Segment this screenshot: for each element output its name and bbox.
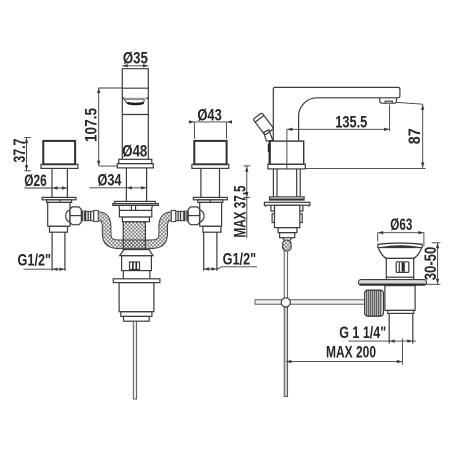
spout base upper bar (O48) — [119, 159, 152, 163]
drain tailpiece step — [388, 310, 414, 313]
svg-text:MAX 200: MAX 200 — [326, 344, 376, 362]
drain tailpiece pipe — [388, 313, 390, 343]
side body black tab — [268, 144, 271, 152]
deck line right — [305, 167, 425, 169]
center bottom nut — [121, 312, 152, 317]
drain plug dark dome — [379, 245, 422, 247]
right handle stem — [200, 168, 202, 197]
svg-text:Ø63: Ø63 — [390, 216, 412, 234]
dim 87 line — [422, 104, 424, 168]
dim G 1 1/4 line — [348, 340, 416, 342]
center body clamp detail — [130, 262, 140, 270]
side cone — [283, 238, 292, 241]
center washer flange — [113, 279, 160, 283]
svg-text:G 1 1/4": G 1 1/4" — [339, 324, 386, 342]
right escutcheon — [193, 197, 227, 199]
left escutcheon — [42, 197, 76, 199]
braided hose left — [98, 216, 136, 244]
side braid stub — [283, 240, 292, 251]
left valve tube G1/2 — [51, 232, 53, 271]
svg-text:G1/2": G1/2" — [18, 251, 52, 269]
dim 107.5 line — [98, 88, 100, 167]
left hose crimp — [94, 210, 98, 221]
side valve body — [275, 205, 300, 227]
spout front line under top — [122, 87, 148, 89]
right handle base — [192, 164, 229, 168]
drain flange top (O63) — [378, 243, 423, 244]
right elbow hex nut — [188, 207, 200, 225]
side base plate — [268, 164, 305, 169]
svg-text:30-50: 30-50 — [422, 247, 440, 281]
spout front line below outlet — [122, 114, 148, 116]
left valve body — [48, 202, 70, 226]
side dish flange — [264, 202, 310, 205]
dim O35 line — [122, 65, 148, 67]
right hose nipple — [176, 211, 184, 220]
center cone segment — [119, 205, 153, 210]
dim G1/2 right line — [203, 267, 257, 269]
drain locknut flange — [359, 280, 427, 286]
center mounting nut — [119, 210, 151, 217]
drain trumpet sides — [378, 248, 421, 259]
side body — [270, 141, 304, 164]
lever stem — [264, 130, 273, 141]
horizontal drain rod — [255, 300, 365, 304]
drain neck — [386, 277, 413, 280]
spout base lower bar — [117, 164, 153, 168]
svg-text:107.5: 107.5 — [82, 108, 100, 142]
DRAIN — [359, 243, 427, 344]
DIMENSIONS — [11, 50, 441, 365]
lever knob — [253, 113, 274, 135]
spout outlet dark mouth — [127, 103, 143, 104]
right elbow ball — [200, 210, 204, 222]
svg-text:MAX 37,5: MAX 37,5 — [231, 186, 249, 238]
left hose nipple — [86, 211, 94, 220]
dim 87 leader — [397, 102, 423, 104]
side washer bar — [270, 197, 305, 200]
drain body clamp detail — [396, 262, 409, 273]
left handle body — [43, 141, 75, 164]
center escutcheon — [115, 201, 156, 203]
side nut 2 — [280, 233, 295, 238]
dim O34 line — [89, 187, 147, 189]
dim MAX 37,5 line — [246, 166, 248, 238]
pop-up rod front — [133, 321, 136, 399]
left elbow grooves — [82, 210, 84, 221]
spout profile side — [273, 87, 400, 141]
drain body — [386, 258, 413, 277]
side body tabs lower — [272, 214, 302, 223]
dim O26 line — [24, 187, 68, 189]
aerator at spout tip — [380, 98, 397, 103]
svg-text:87: 87 — [406, 128, 424, 144]
svg-text:G1/2": G1/2" — [223, 251, 257, 269]
dim 135.5 line — [287, 128, 390, 130]
right valve nut — [203, 226, 221, 232]
dim O43 line — [190, 121, 231, 123]
O34 stem under spout — [125, 168, 127, 202]
spout front light seam — [123, 97, 148, 99]
dim 30-50 line — [437, 243, 439, 284]
dim 37.7 line — [26, 138, 28, 171]
svg-text:Ø34: Ø34 — [98, 171, 122, 189]
rod junction ball — [281, 298, 290, 307]
right handle body — [194, 141, 226, 164]
left handle stem — [51, 168, 53, 197]
right hose crimp — [171, 210, 175, 221]
dim G1/2 left line — [24, 268, 66, 270]
left elbow hex nut — [70, 207, 82, 225]
aerator notch — [385, 101, 392, 103]
dim O63 line — [378, 232, 424, 234]
center body cylinder — [122, 256, 152, 271]
right elbow grooves — [186, 210, 188, 221]
drain lower body — [385, 286, 415, 311]
spout outlet trapezoid — [124, 99, 144, 103]
dim MAX 200 line — [286, 361, 403, 363]
center inset section — [123, 271, 150, 279]
center cone flare — [120, 250, 153, 256]
right valve body — [200, 202, 222, 226]
drain flange underside — [378, 244, 423, 247]
side nut 1 — [278, 228, 297, 233]
SIDE VIEW — [253, 87, 426, 396]
braided hose right — [134, 216, 172, 244]
svg-text:Ø26: Ø26 — [24, 172, 47, 190]
center lower cylinder — [119, 283, 154, 312]
spout column front — [122, 69, 148, 160]
left valve nut — [50, 226, 68, 232]
svg-text:Ø48: Ø48 — [122, 143, 147, 161]
svg-text:37.7: 37.7 — [11, 139, 29, 163]
left elbow ball — [66, 210, 70, 222]
FRONT VIEW — [41, 69, 229, 399]
right valve tube G1/2 — [203, 232, 205, 271]
side shanks below deck — [272, 169, 274, 197]
side body tabs upper — [271, 205, 303, 211]
center braided column — [123, 222, 145, 250]
knurled adjuster nut — [365, 290, 384, 316]
pop-up rod side — [284, 251, 287, 302]
left handle base — [41, 164, 78, 168]
